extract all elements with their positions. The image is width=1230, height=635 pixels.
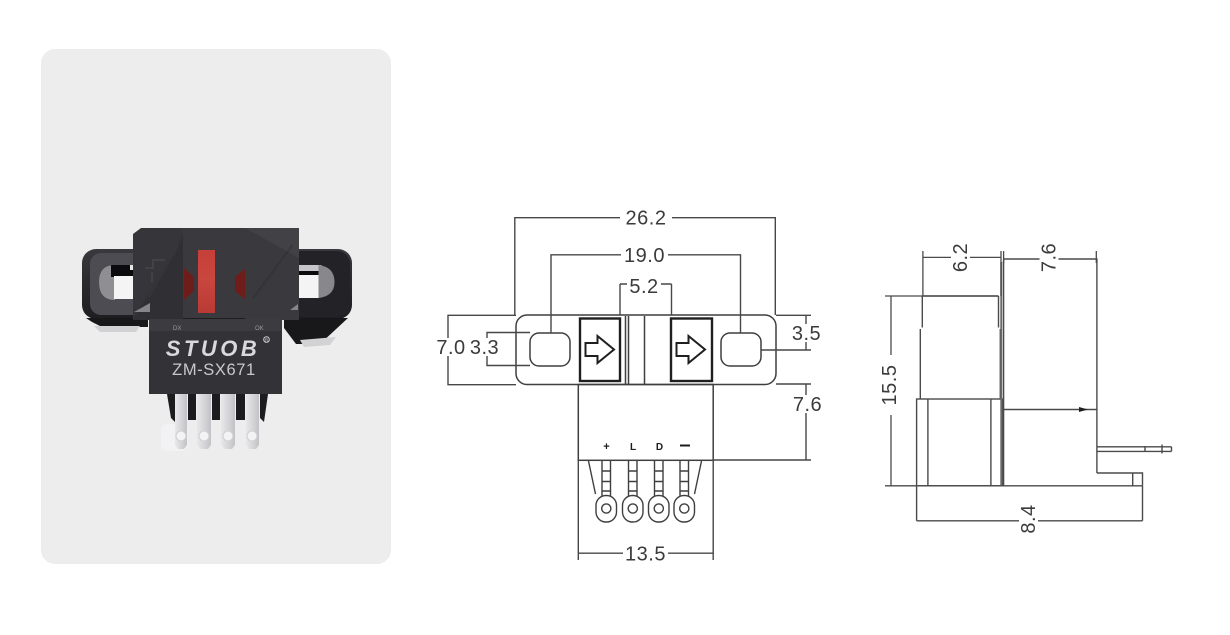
svg-text:8.4: 8.4 [1018, 504, 1040, 533]
svg-text:3.5: 3.5 [792, 323, 821, 345]
svg-text:D: D [656, 442, 663, 453]
svg-text:+: + [603, 441, 609, 453]
svg-text:7.0: 7.0 [436, 337, 465, 359]
svg-text:3.3: 3.3 [470, 337, 499, 359]
svg-text:DX: DX [173, 326, 181, 332]
svg-text:26.2: 26.2 [626, 208, 667, 230]
svg-text:7.6: 7.6 [1039, 243, 1061, 272]
svg-text:13.5: 13.5 [625, 544, 666, 566]
svg-text:L: L [630, 442, 636, 453]
svg-text:15.5: 15.5 [879, 365, 901, 406]
svg-text:6.2: 6.2 [950, 243, 972, 272]
svg-text:19.0: 19.0 [624, 245, 665, 267]
svg-text:STUOB: STUOB [166, 336, 261, 361]
svg-text:7.6: 7.6 [793, 394, 822, 416]
svg-text:ZM-SX671: ZM-SX671 [172, 361, 256, 379]
svg-text:5.2: 5.2 [629, 276, 658, 298]
svg-text:OK: OK [255, 326, 264, 332]
